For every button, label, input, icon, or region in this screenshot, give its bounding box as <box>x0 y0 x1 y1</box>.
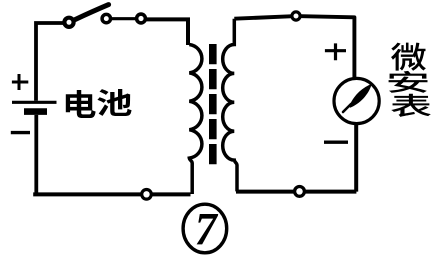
binding post terminal (bottom of primary) <box>142 190 152 200</box>
microammeter M1 needle tail <box>343 104 351 112</box>
label text 安 (microammeter) <box>389 71 428 93</box>
label text 池 (battery) <box>97 89 131 116</box>
binding post terminal (top of primary) <box>137 14 146 23</box>
wire: top-left horizontal and left vertical down to battery positive plate <box>36 23 64 101</box>
label text 微 (microammeter) <box>391 43 426 71</box>
figure number circle <box>183 204 227 253</box>
meter + polarity sign <box>325 43 346 60</box>
wire: meter bottom down and secondary bottom rail <box>236 124 356 192</box>
microammeter M1 needle leaf <box>349 84 372 108</box>
transformer T1 secondary winding (4 turns) <box>223 19 237 192</box>
wire: battery negative down to bottom rail <box>34 115 38 193</box>
meter - polarity sign <box>324 140 348 143</box>
figure number 7 <box>197 214 219 244</box>
wire: bottom rail of primary loop <box>33 192 190 196</box>
label text 电 (battery) <box>66 90 96 118</box>
wire: switch contact to binding post <box>111 17 137 20</box>
switch S1 contact terminal <box>102 14 110 22</box>
label text 表 (microammeter) <box>391 94 431 117</box>
binding post terminal (bottom of secondary) <box>295 187 305 197</box>
battery + polarity sign <box>12 74 28 90</box>
switch S1 pivot terminal <box>64 18 73 27</box>
microammeter M1 body circle <box>334 78 379 123</box>
transformer T1 primary winding (4 turns) <box>189 45 202 195</box>
battery B1 long positive plate <box>12 101 57 104</box>
wire: binding post to transformer primary top <box>146 19 188 45</box>
transformer T1 laminated iron core (dashed bar) <box>209 44 217 165</box>
battery B1 short negative plate <box>24 108 47 115</box>
switch S1 blade (open) <box>75 5 109 20</box>
battery - polarity sign <box>11 131 30 134</box>
wire: secondary top rail and right vertical down to meter <box>234 16 354 79</box>
binding post terminal (top of secondary) <box>292 12 300 20</box>
